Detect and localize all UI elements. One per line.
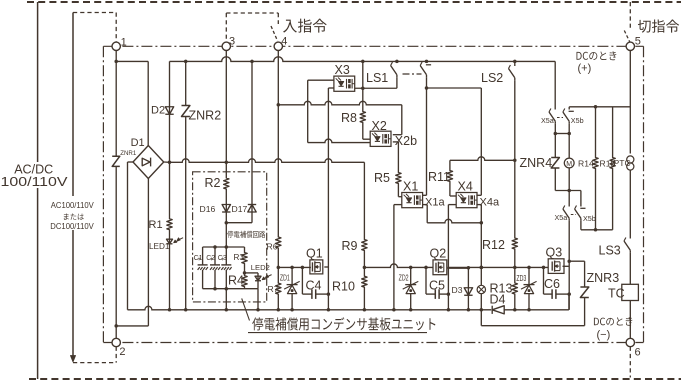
resistor R7 [276,267,281,309]
terminal 5 [626,42,634,50]
wire R6-R7 [277,253,279,267]
wire NC to X4 riser [427,87,482,89]
wire terminal4 drop [277,51,279,105]
wire X5 upper linkage [557,117,563,119]
svg-text:R5: R5 [374,171,390,185]
switch X5b upper [568,107,570,110]
wire hosei bottom bus [203,288,258,290]
svg-text:D4: D4 [490,293,506,307]
svg-text:AC100/110V: AC100/110V [51,200,94,210]
diode D17 [251,61,253,200]
relay X1 [402,193,423,208]
label hosei circuit [227,231,265,238]
wire rail A [128,306,492,309]
svg-text:2: 2 [119,346,125,358]
wire X4 lower-right [476,204,481,206]
label capacitor unit [252,317,435,330]
transistor Q1 [310,260,323,274]
terminal 3 [222,42,230,50]
svg-text:R12: R12 [482,238,505,252]
transistor Q3 [548,259,564,274]
svg-text:TC: TC [608,287,625,301]
transistor Q2 [433,260,447,275]
capacitor C2 [214,247,216,265]
motor M [568,134,570,159]
svg-text:LED2: LED2 [251,263,270,272]
svg-text:D17: D17 [232,204,248,214]
label DC plus [577,51,617,60]
wire X4 lower-left [448,204,456,206]
wire gate node mid [364,264,433,268]
switch X5a upper [549,112,555,121]
wire Q1 right pin [324,266,328,268]
svg-text:ZD2: ZD2 [399,274,409,282]
wire bridge AC to loads [170,159,365,162]
svg-text:R11: R11 [428,170,450,184]
varistor ZNR2 [185,61,187,105]
svg-text:ZD3: ZD3 [516,275,526,283]
wire X3LL to rail [327,266,329,310]
wire dashed input-command box [226,12,278,14]
wire Q2 right pin [448,267,469,269]
wire LS2 to R12 [514,160,516,233]
resistor R13 [514,267,516,277]
LED LED2 [245,272,259,274]
svg-text:D2: D2 [151,105,165,117]
label cut command [638,20,679,33]
label DC minus [594,317,632,326]
diode D2 [169,61,171,100]
resistor R4 [242,274,247,289]
wire external supply dashed top border [27,1,681,3]
label AC100/110V [49,196,96,230]
wire supply line left [37,2,39,379]
svg-text:X1: X1 [403,180,418,194]
svg-text:ZD1: ZD1 [280,274,290,282]
switch LS1 [396,61,398,63]
dash-dot hosei box [193,172,267,302]
wire Q3 right pin [563,265,570,267]
wire bridge left corner drop [127,162,129,310]
capacitor C4 [301,267,303,294]
svg-text:X5a: X5a [555,213,568,222]
switch X5b lower [575,209,581,218]
label unit leader [242,298,250,320]
wire hosei mid [225,221,229,225]
capacitor C5 [425,267,427,294]
resistor R8 [362,88,364,106]
terminal 6 [626,338,634,346]
wire upper right feed [569,106,630,108]
svg-text:PTC: PTC [614,158,631,168]
label 100/110V [0,175,69,188]
svg-text:LED1: LED1 [149,242,170,251]
wire gate node right [448,266,549,268]
wire X3 right pin [355,87,397,89]
svg-text:X2: X2 [372,119,387,133]
capacitor C6 [543,267,545,294]
unit boundary dash-dot right [643,46,645,342]
svg-text:X1a: X1a [425,197,445,209]
svg-text:D3: D3 [452,285,463,295]
resistor R14 [595,107,597,152]
trip coil TC [622,284,639,300]
junction D3 node [467,266,471,270]
switch input command (dashed blade) [271,26,278,41]
svg-text:R10: R10 [332,280,355,294]
switch LS3 [624,241,630,250]
wire ZNR4 node to R11 [450,157,515,160]
diode D4 [492,306,504,314]
resistor R5 [396,168,401,188]
unit boundary dash-dot bottom [103,342,643,344]
resistor R2 [225,162,227,176]
label AC/DC [13,162,55,175]
relay X3 [334,76,355,91]
wire R9-R10 [363,255,365,267]
svg-text:LS3: LS3 [599,244,621,258]
unit boundary dash-dot left [102,46,104,342]
wire riser to rail2 [480,310,482,326]
wire rail 2 [481,325,584,327]
node R3 bottom [243,271,247,275]
svg-text:ZNR1: ZNR1 [120,150,137,157]
wire X5 lower linkage [571,214,576,216]
arrow supply line end [70,356,75,363]
terminal 2 [112,338,120,346]
zener ZD3 [528,267,530,284]
svg-text:Q1: Q1 [306,247,323,261]
capacitor C1 [202,247,204,265]
wire external supply dashed bottom border [29,378,681,380]
svg-text:X3: X3 [335,63,350,77]
svg-text:LS2: LS2 [481,71,503,85]
svg-text:X5b: X5b [583,214,596,223]
svg-text:R8: R8 [341,111,357,125]
wire R10 to rail [363,296,365,310]
switch cut command (dashed blade) [624,31,630,43]
svg-text:R3: R3 [234,253,245,262]
wire X5b lower to R14 R15 [581,229,613,231]
wire X3 lower-left pin [328,87,334,89]
svg-text:5: 5 [635,36,641,48]
LED LED1 [169,231,171,252]
zener ZD2 [410,267,412,284]
wire dashed feed to terminal 1 [73,12,116,14]
unit boundary dash-dot top [103,45,643,47]
varistor ZNR1 [115,61,117,156]
svg-text:C6: C6 [544,277,560,291]
terminal 4 [274,42,282,50]
svg-text:4: 4 [281,36,287,48]
resistor R3 [244,247,246,252]
resistor R12 [512,233,517,254]
wire bridge bottom to terminal2 wire [147,179,149,326]
resistor R9 [362,235,367,255]
zener ZD1 [291,267,293,284]
switch X5a lower [568,191,570,207]
svg-text:C4: C4 [306,279,322,293]
svg-text:X5a: X5a [541,116,554,125]
wire AC node to R9 [363,162,365,235]
resistor R6 [276,232,281,253]
terminal 1 [112,42,120,50]
svg-text:C1: C1 [194,255,203,262]
resistor R11 [447,166,452,186]
wire X5 upper bottoms [555,133,569,135]
thermistor PTC [629,51,631,154]
wire gate node left [278,266,311,268]
wire supply line right [72,13,74,357]
svg-text:ZNR4: ZNR4 [520,156,553,170]
wire terminal3 drop [225,51,227,163]
svg-text:M: M [566,161,572,168]
svg-text:C5: C5 [429,279,445,293]
resistor R10 [362,267,367,296]
svg-text:ZNR2: ZNR2 [189,109,222,123]
varistor ZNR4 [554,134,556,158]
svg-text:1: 1 [121,36,127,48]
wire Q3 column to rail [568,261,570,310]
svg-text:ZNR3: ZNR3 [587,271,620,285]
svg-text:X4: X4 [458,180,473,194]
svg-text:LS1: LS1 [366,71,388,85]
diode D16 [225,191,227,201]
wire X4LL to rail [447,294,449,310]
svg-text:R4: R4 [228,274,244,288]
switch LS2 [514,61,516,66]
wire terminal4 to X2 (hop wire) [278,101,402,104]
bridge rectifier D1 [133,146,164,179]
diode D3 [467,284,469,299]
wire riser to node [480,223,482,268]
wire terminal2 dashed drop [115,347,117,363]
svg-text:R9: R9 [342,239,358,253]
wire terminal1 to bridge top [115,51,117,62]
svg-text:DC100/110V: DC100/110V [50,221,94,231]
node bridge AC right [168,161,172,165]
resistor R15 [612,107,614,152]
svg-text:C3: C3 [218,255,227,262]
capacitor C3 [225,247,227,265]
wire ZNR4 bottom joins M line [555,190,581,192]
svg-text:(+): (+) [578,63,592,75]
svg-text:R1: R1 [149,219,163,231]
wire X1 lower-right [423,204,427,206]
wire LS1 linkage dash-dot [403,73,422,75]
wire rail A right [504,309,569,311]
svg-text:R14: R14 [578,159,594,169]
svg-text:X4a: X4a [480,197,500,209]
svg-text:R2: R2 [205,176,221,190]
wire top bus to X5a upper [554,61,556,109]
svg-text:R7: R7 [268,284,279,294]
wire hosei outputs to rail [225,289,227,310]
wire hosei top bus [203,246,245,248]
svg-text:Q2: Q2 [430,247,447,261]
resistor R1 [169,162,171,217]
svg-text:100/110V: 100/110V [1,174,68,189]
wire terminal6 dashed drop [629,347,631,378]
svg-text:C2: C2 [206,255,215,262]
wire X1 lower-left [394,204,402,206]
svg-text:D16: D16 [200,204,216,214]
wire X3 upper-left pin [308,79,334,81]
svg-text:R6: R6 [267,242,278,252]
relay X4 [456,193,477,208]
svg-text:(−): (−) [597,329,611,341]
wire top bus [170,57,556,62]
wire X3UL to X2 lower-left [308,139,371,143]
lamp indicator [480,267,482,285]
svg-text:Q3: Q3 [546,246,563,260]
wire X2 right to R5 [393,141,399,143]
svg-text:6: 6 [635,346,641,358]
svg-text:D1: D1 [131,137,145,149]
switch aux NC [426,61,428,63]
wire X1 upper-right [423,194,427,196]
wire dashed cut-command line [629,2,631,28]
svg-text:X5b: X5b [571,116,584,125]
svg-text:3: 3 [229,36,235,48]
relay X2 [370,131,391,146]
label input command [283,19,327,33]
varistor ZNR3 [569,260,584,262]
wire X4 upper-right [476,194,481,196]
